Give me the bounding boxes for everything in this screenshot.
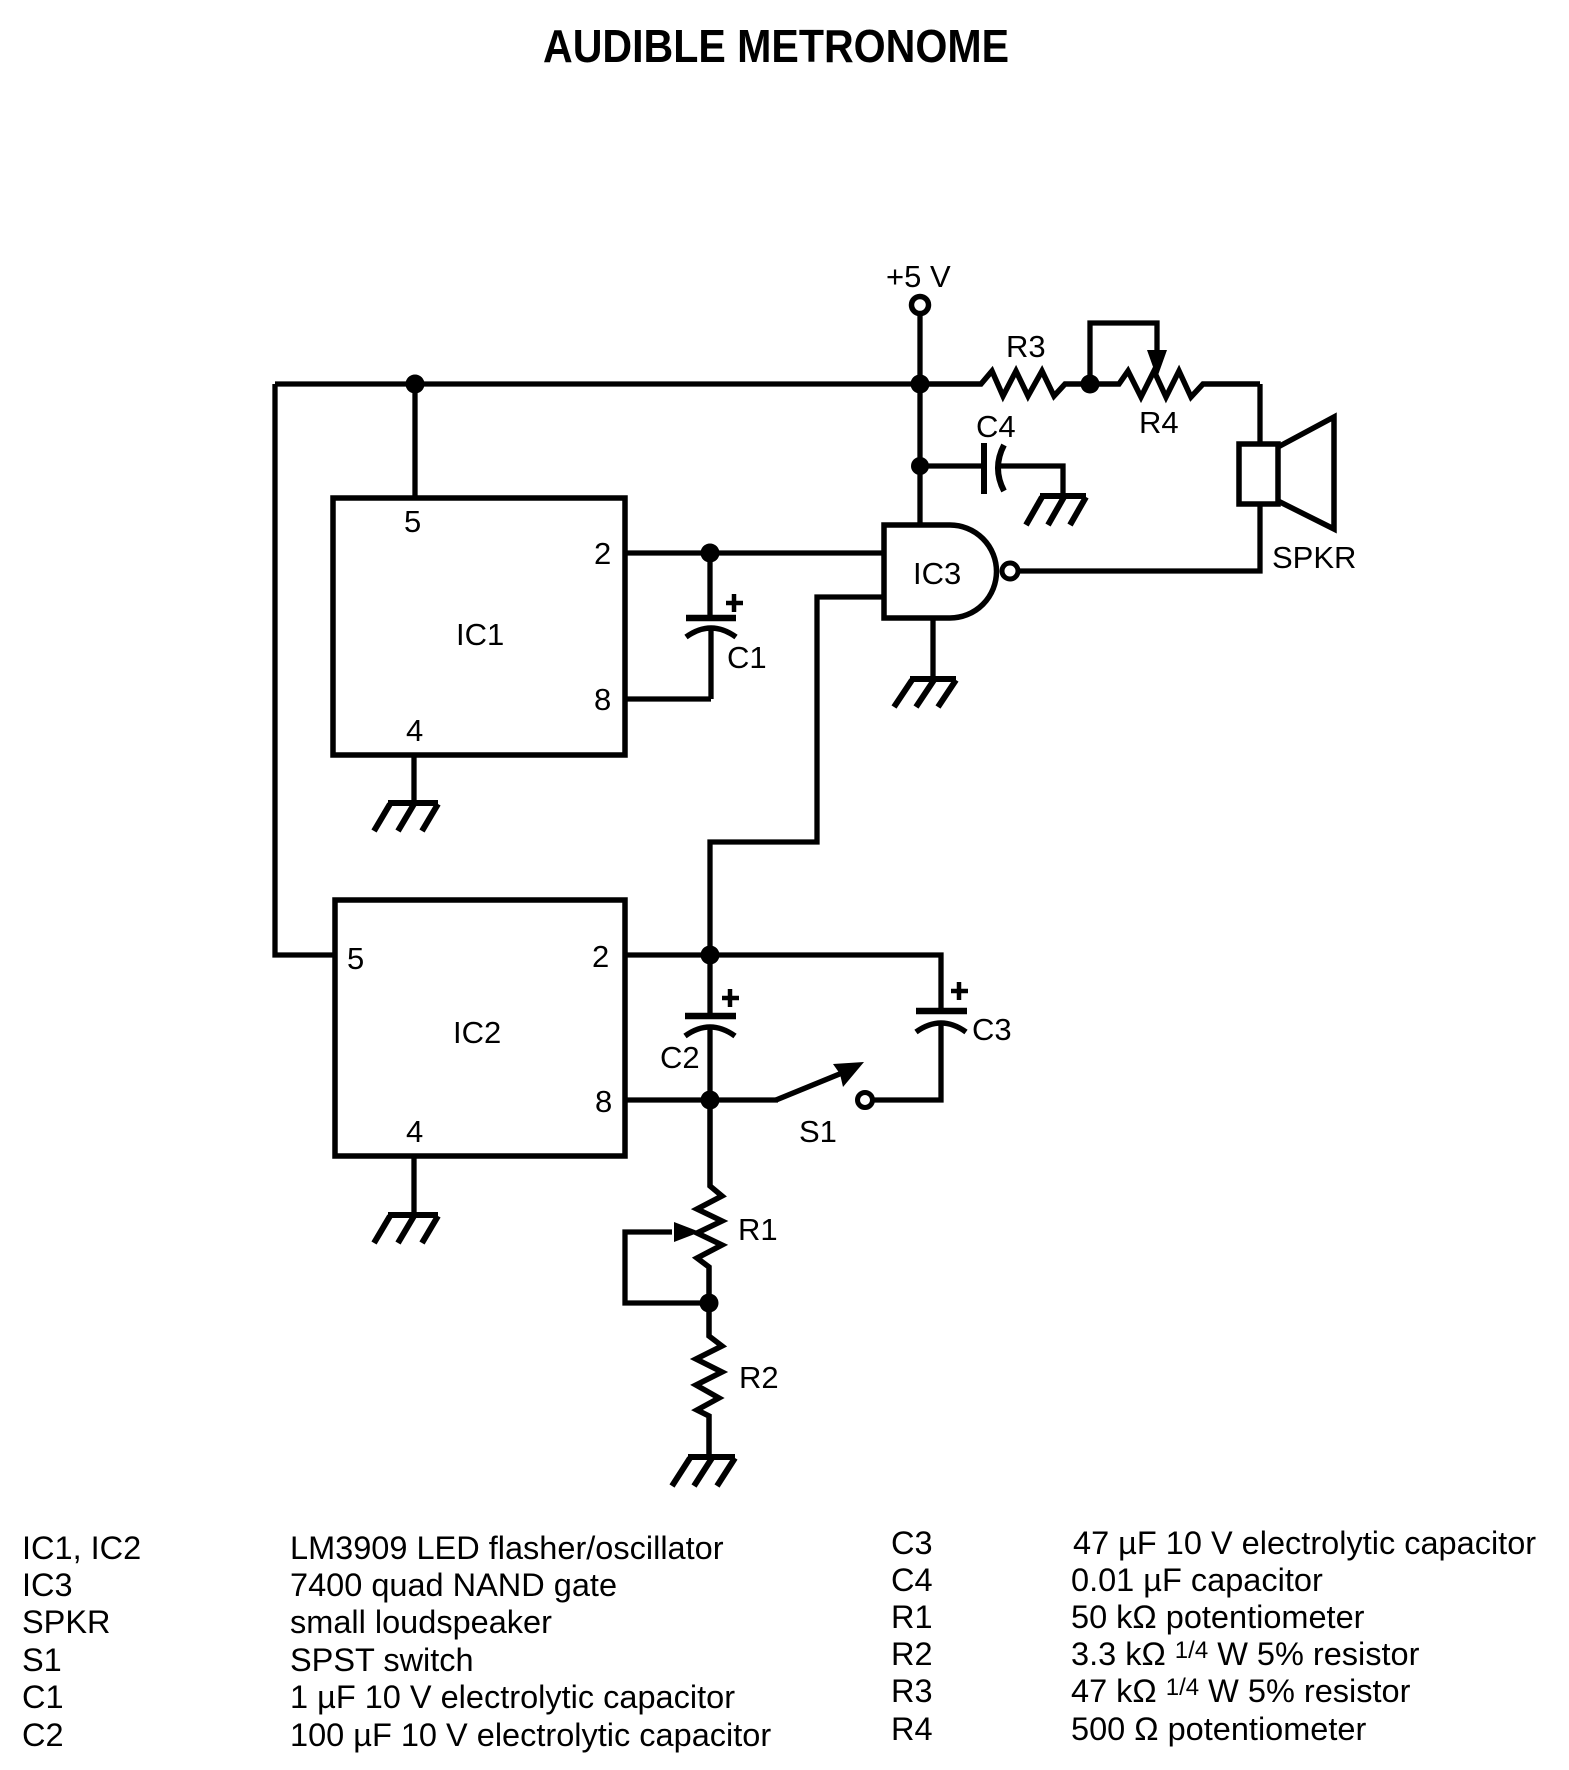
- switch S1 contact: [858, 1093, 873, 1108]
- switch S1 blade: [776, 1073, 842, 1100]
- svg-text:100 µF 10 V electrolytic capac: 100 µF 10 V electrolytic capacitor: [290, 1717, 771, 1753]
- svg-text:47 kΩ 1/4 W 5% resistor: 47 kΩ 1/4 W 5% resistor: [1071, 1673, 1411, 1709]
- parts list right labels: [891, 1525, 933, 1747]
- svg-text:R3: R3: [1006, 329, 1046, 364]
- parts list left descriptions: [290, 1530, 771, 1753]
- wire IC1 pin 8: [625, 696, 711, 701]
- svg-text:SPKR: SPKR: [1272, 540, 1356, 575]
- svg-text:LM3909 LED flasher/oscillator: LM3909 LED flasher/oscillator: [290, 1530, 724, 1566]
- wire IC2 pin2 junction to C3: [710, 955, 941, 1009]
- parts list left labels: [22, 1530, 141, 1753]
- svg-text:R4: R4: [891, 1711, 933, 1747]
- ground at IC2 pin 4: [374, 1215, 438, 1243]
- wire left rail down to IC2 pin 5: [275, 384, 335, 955]
- svg-text:C4: C4: [891, 1562, 933, 1598]
- svg-text:C3: C3: [891, 1525, 933, 1561]
- capacitor C4: [920, 443, 1063, 494]
- switch S1 arrowhead: [833, 1062, 864, 1087]
- svg-text:C4: C4: [976, 409, 1016, 444]
- svg-text:IC1, IC2: IC1, IC2: [22, 1530, 141, 1566]
- speaker SPKR: [1239, 417, 1334, 529]
- resistor R2: [696, 1303, 722, 1455]
- IC1 box: [333, 498, 625, 755]
- wire IC1 pin 2: [625, 550, 710, 555]
- ground at R2: [672, 1457, 735, 1486]
- svg-text:50 kΩ potentiometer: 50 kΩ potentiometer: [1071, 1599, 1365, 1635]
- svg-text:AUDIBLE METRONOME: AUDIBLE METRONOME: [543, 20, 1009, 72]
- node junction between R3 and R4: [1081, 375, 1100, 394]
- svg-text:S1: S1: [22, 1642, 62, 1678]
- svg-text:C2: C2: [660, 1040, 700, 1075]
- svg-text:C2: C2: [22, 1717, 64, 1753]
- R1 wiper wire and bracket: [625, 1232, 709, 1303]
- resistor R3: [920, 371, 1090, 396]
- svg-text:small loudspeaker: small loudspeaker: [290, 1604, 552, 1640]
- capacitor C2: [685, 955, 736, 1100]
- potentiometer R4: [1090, 371, 1260, 397]
- svg-text:R2: R2: [891, 1636, 933, 1672]
- svg-text:2: 2: [594, 536, 611, 571]
- node junction at IC2 pin 8: [701, 1091, 720, 1110]
- wire IC1 pin 5 drop: [412, 384, 417, 498]
- svg-text:+5 V: +5 V: [886, 259, 951, 294]
- svg-text:3.3 kΩ 1/4 W 5% resistor: 3.3 kΩ 1/4 W 5% resistor: [1071, 1636, 1420, 1672]
- svg-text:R1: R1: [738, 1212, 778, 1247]
- parts list right descriptions: [1071, 1525, 1536, 1747]
- svg-text:7400 quad NAND gate: 7400 quad NAND gate: [290, 1567, 617, 1603]
- svg-text:IC3: IC3: [22, 1567, 73, 1603]
- wire IC2 pin 8: [625, 1097, 710, 1102]
- IC3 output bubble: [1002, 563, 1018, 579]
- node junction at IC1 pin5 drop: [406, 375, 425, 394]
- svg-text:0.01 µF capacitor: 0.01 µF capacitor: [1071, 1562, 1323, 1598]
- IC2 box: [335, 900, 625, 1156]
- svg-text:SPKR: SPKR: [22, 1604, 111, 1640]
- svg-text:5: 5: [404, 504, 421, 539]
- svg-text:IC2: IC2: [453, 1015, 501, 1050]
- svg-text:500 Ω potentiometer: 500 Ω potentiometer: [1071, 1711, 1366, 1747]
- svg-text:8: 8: [594, 682, 611, 717]
- svg-text:S1: S1: [799, 1114, 837, 1149]
- switch S1 wire: [710, 1097, 778, 1102]
- wire IC3 input 1 from IC1 pin 2: [710, 550, 884, 555]
- node junction below R1: [700, 1294, 719, 1313]
- capacitor C1: [686, 553, 736, 699]
- R4 wiper arrowhead: [1147, 350, 1167, 378]
- svg-text:SPST switch: SPST switch: [290, 1642, 474, 1678]
- svg-text:R2: R2: [739, 1360, 779, 1395]
- svg-text:R3: R3: [891, 1673, 933, 1709]
- svg-text:IC1: IC1: [456, 617, 504, 652]
- svg-text:4: 4: [406, 713, 423, 748]
- C3 plus sign: [951, 982, 968, 1000]
- svg-text:4: 4: [406, 1114, 423, 1149]
- wire R4 wiper loop: [1090, 323, 1157, 384]
- R1 wiper arrowhead: [674, 1222, 700, 1242]
- wire IC1 pin 4: [411, 755, 416, 801]
- svg-text:1 µF 10 V electrolytic capacit: 1 µF 10 V electrolytic capacitor: [290, 1679, 735, 1715]
- svg-text:C1: C1: [727, 640, 767, 675]
- svg-text:8: 8: [595, 1084, 612, 1119]
- svg-text:R1: R1: [891, 1599, 933, 1635]
- node junction at C4 tap: [911, 457, 929, 475]
- node +5 V terminal: [912, 297, 929, 314]
- op-amp U1 : IC3 NAND gate body: [884, 525, 997, 618]
- wire IC2 pin 2: [625, 952, 710, 957]
- wire IC3 bottom pin: [930, 618, 935, 678]
- svg-text:5: 5: [347, 941, 364, 976]
- node junction at +5V rail: [911, 375, 930, 394]
- svg-text:47 µF 10 V electrolytic capaci: 47 µF 10 V electrolytic capacitor: [1073, 1525, 1536, 1561]
- ground at IC3: [894, 679, 956, 707]
- svg-text:R4: R4: [1139, 405, 1179, 440]
- wire rail down from +5V junction to IC3 top pin: [917, 384, 922, 525]
- svg-text:IC3: IC3: [913, 556, 961, 591]
- C2 plus sign: [722, 989, 739, 1007]
- svg-text:C1: C1: [22, 1679, 64, 1715]
- wire IC2 pin 4: [411, 1156, 416, 1213]
- svg-text:2: 2: [592, 939, 609, 974]
- potentiometer R1: [697, 1100, 722, 1303]
- capacitor C3: [874, 1011, 967, 1100]
- ground at C4: [1026, 496, 1086, 525]
- ground at IC1 pin 4: [374, 803, 438, 831]
- node junction at IC1 pin2 / C1: [701, 544, 720, 563]
- wire top supply rail: [275, 381, 920, 386]
- wire from +5V terminal to top rail: [917, 316, 922, 384]
- node junction at IC2 pin 2: [701, 946, 720, 965]
- C1 plus sign: [726, 594, 743, 612]
- wire IC3 input 2 riser to IC2 pin 2: [710, 597, 884, 955]
- wire R4 to speaker top: [1257, 384, 1262, 444]
- svg-text:C3: C3: [972, 1012, 1012, 1047]
- wire speaker bottom to IC3 output: [1017, 504, 1260, 571]
